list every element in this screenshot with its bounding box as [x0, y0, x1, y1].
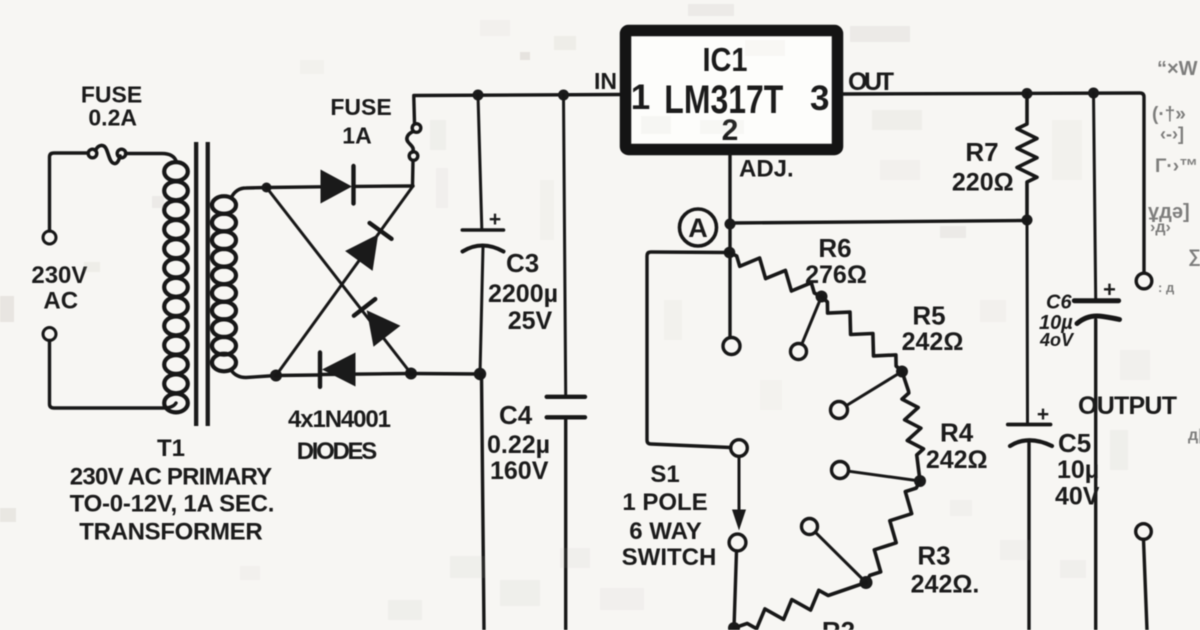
- svg-text:4x1N4001: 4x1N4001: [288, 406, 391, 433]
- wire contact 2 to R6-R5 junction: [802, 297, 822, 345]
- node junction R7 bottom: [1022, 215, 1033, 226]
- wire AC upper terminal to fuse: [50, 153, 88, 231]
- svg-text:242Ω.: 242Ω.: [911, 571, 980, 599]
- svg-text:д|: д|: [1188, 427, 1200, 444]
- svg-text:160V: 160V: [490, 457, 549, 485]
- node junction R5-R4: [896, 366, 908, 378]
- capacitor C4 0.22u 160V: [564, 95, 566, 395]
- fuse 1A symbol: [412, 97, 416, 123]
- svg-text:AC: AC: [43, 288, 78, 315]
- svg-text:SWITCH: SWITCH: [622, 544, 717, 571]
- svg-text:A: A: [688, 213, 708, 243]
- resistor R2: [734, 583, 866, 629]
- wire contact 4 to R4-R3 junction: [849, 471, 921, 481]
- wire AC lower terminal to transformer primary bottom: [50, 341, 177, 409]
- switch S1 contact 5: [802, 519, 818, 535]
- svg-text:276Ω: 276Ω: [805, 261, 867, 289]
- svg-text:IN: IN: [594, 68, 617, 94]
- switch S1 contact 3: [831, 402, 848, 419]
- svg-text:R7: R7: [965, 137, 998, 167]
- node junction C4 top: [558, 90, 569, 101]
- wire switch pole L-run: [647, 252, 731, 448]
- resistor R5 242 ohm: [822, 297, 903, 372]
- diode D3 diagonal up-right (1N4001): [345, 223, 391, 271]
- svg-text:ADJ.: ADJ.: [739, 156, 794, 183]
- svg-text:T1: T1: [157, 435, 185, 462]
- wire contact 3 to R5-R4 junction: [847, 372, 903, 406]
- svg-text:C4: C4: [499, 400, 533, 430]
- node junction C3 bottom: [474, 368, 486, 380]
- svg-text:1A: 1A: [342, 123, 371, 149]
- svg-text:TRANSFORMER: TRANSFORMER: [79, 519, 262, 546]
- node junction C6 top: [1088, 88, 1099, 99]
- svg-text:242Ω: 242Ω: [926, 446, 988, 474]
- resistor R4 242 ohm: [902, 372, 924, 482]
- svg-text:4oV: 4oV: [1039, 330, 1075, 350]
- wire fuse 1A to bridge corner: [411, 161, 415, 187]
- switch S1 contact 6: [729, 534, 746, 551]
- svg-text:OUT: OUT: [848, 68, 894, 96]
- switch S1 contact 4: [832, 462, 849, 479]
- wire IC ADJ pin down: [728, 155, 731, 337]
- svg-text:: д: : д: [1158, 280, 1175, 295]
- svg-text:R5: R5: [912, 301, 945, 331]
- svg-text:242Ω: 242Ω: [902, 328, 964, 356]
- wire bridge top rail: [267, 186, 414, 188]
- wire bridge diagonal top-left to bottom-right: [267, 188, 412, 374]
- svg-text:‹-›]: ‹-›]: [1160, 124, 1184, 144]
- wire C3 bottom rail down: [482, 374, 485, 630]
- node bridge top-left junction: [262, 183, 272, 193]
- switch S1 contact 1: [723, 338, 740, 355]
- diode D4 diagonal up-left (1N4001): [354, 299, 401, 347]
- node A circle: [680, 209, 717, 246]
- output terminal negative: [1136, 524, 1152, 540]
- svg-text:25V: 25V: [508, 307, 553, 335]
- node junction R3-R2: [860, 576, 873, 589]
- capacitor C5 10u 40V: [1026, 220, 1030, 423]
- wire IC OUT to right bus: [843, 93, 1144, 273]
- node junction C3 top: [473, 90, 484, 101]
- svg-text:S1: S1: [650, 461, 679, 488]
- wire output negative down: [1144, 540, 1148, 630]
- svg-text:1: 1: [631, 78, 650, 117]
- wire secondary bottom to bridge node: [231, 370, 276, 378]
- svg-text:220Ω: 220Ω: [952, 169, 1014, 197]
- svg-text:TO-0-12V, 1A SEC.: TO-0-12V, 1A SEC.: [70, 491, 275, 518]
- wire bridge bottom rail: [276, 374, 480, 376]
- fuse 0.2A symbol: [88, 149, 97, 158]
- wire secondary top to bridge node: [231, 188, 267, 199]
- switch S1 wiper arrow: [738, 457, 741, 510]
- IC1 LM317T box: [626, 31, 838, 150]
- node junction R6-R5: [816, 291, 828, 303]
- svg-text:Γ·›™: Γ·›™: [1155, 156, 1198, 177]
- capacitor C3 2200u 25V: [478, 95, 482, 229]
- svg-text:C6: C6: [1046, 292, 1072, 314]
- svg-text:230V AC PRIMARY: 230V AC PRIMARY: [70, 464, 272, 491]
- node junction chain top: [724, 247, 736, 259]
- switch S1 pole contact: [731, 440, 748, 457]
- node junction R4-R3: [914, 475, 926, 487]
- transformer T1 primary winding: [164, 162, 188, 412]
- svg-text:›д›: ›д›: [1150, 219, 1171, 236]
- svg-text:0.22µ: 0.22µ: [487, 431, 550, 459]
- AC input terminal upper: [43, 231, 56, 244]
- AC input terminal lower: [43, 328, 56, 341]
- node bridge bottom-left junction: [270, 370, 282, 382]
- wire fuse to transformer primary: [126, 154, 177, 163]
- svg-text:0.2A: 0.2A: [88, 105, 137, 131]
- wire top bus to IC IN: [414, 95, 620, 96]
- svg-text:+: +: [1103, 277, 1116, 302]
- svg-text:+: +: [1037, 403, 1049, 426]
- svg-text:C3: C3: [506, 248, 539, 278]
- svg-text:“×W: “×W: [1157, 58, 1198, 80]
- resistor R6 276 ohm: [730, 253, 822, 297]
- transformer T1 core: [194, 142, 210, 426]
- node junction ADJ-A: [725, 219, 736, 230]
- resistor R7 220 ohm: [1017, 94, 1037, 221]
- svg-text:R2: R2: [822, 616, 855, 630]
- svg-text:OUTPUT: OUTPUT: [1078, 392, 1177, 420]
- resistor R3 242 ohm: [866, 481, 920, 583]
- node bridge bottom-right junction: [405, 368, 417, 380]
- svg-text:3: 3: [810, 79, 829, 118]
- diode D1 top (1N4001): [321, 166, 354, 204]
- output terminal positive: [1136, 273, 1152, 289]
- svg-text:IC1: IC1: [703, 41, 748, 78]
- svg-text:∑: ∑: [1188, 246, 1200, 266]
- transformer T1 secondary winding: [212, 196, 236, 371]
- node junction R7 top: [1022, 88, 1033, 99]
- svg-text:6 WAY: 6 WAY: [629, 518, 701, 545]
- svg-text:230V: 230V: [31, 262, 87, 289]
- svg-text:R4: R4: [940, 418, 974, 448]
- svg-text:10µ: 10µ: [1057, 456, 1099, 484]
- svg-text:R3: R3: [917, 541, 950, 571]
- wire ADJ node A to R7 bottom: [730, 221, 1027, 224]
- svg-text:+: +: [489, 208, 501, 231]
- wire contact 6 to chain bottom: [734, 551, 737, 628]
- svg-text:1 POLE: 1 POLE: [622, 489, 707, 516]
- svg-text:2200µ: 2200µ: [488, 280, 558, 308]
- diode D2 bottom pointing left (1N4001): [320, 353, 356, 387]
- svg-text:FUSE: FUSE: [330, 94, 391, 120]
- switch S1 contact 2: [791, 344, 807, 360]
- svg-text:(·†»: (·†»: [1152, 104, 1186, 125]
- svg-text:C5: C5: [1058, 428, 1091, 458]
- svg-text:40V: 40V: [1055, 483, 1100, 511]
- node junction chain bottom: [728, 622, 740, 630]
- wire bridge diagonal bottom-left to top-right: [276, 186, 413, 376]
- svg-text:DIODES: DIODES: [297, 438, 378, 465]
- wire contact 5 to R3-R2 junction: [815, 532, 866, 582]
- svg-text:R6: R6: [818, 233, 851, 263]
- capacitor C6 10u 40V handwritten: [1094, 93, 1096, 299]
